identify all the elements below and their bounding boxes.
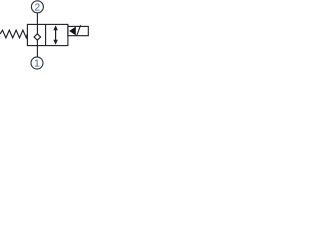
solenoid triangle xyxy=(69,27,76,36)
wire port2 to valve body xyxy=(36,13,38,25)
valve body outline (two position boxes) xyxy=(27,24,68,45)
solenoid diagonal slash xyxy=(77,25,81,35)
position divider line xyxy=(45,24,47,45)
svg-text:2: 2 xyxy=(34,2,40,13)
poppet stub wire upper xyxy=(36,24,38,34)
spring (zigzag) xyxy=(0,30,27,38)
poppet stub wire lower xyxy=(36,40,38,46)
port 2 circle xyxy=(31,1,43,13)
flow path arrow shaft xyxy=(55,28,57,42)
svg-text:1: 1 xyxy=(34,59,40,70)
flow arrow head down xyxy=(53,40,57,45)
poppet ball (diamond) xyxy=(34,34,41,40)
wire valve body to port 1 xyxy=(36,46,38,57)
flow arrow head up xyxy=(53,25,57,30)
port 1 circle xyxy=(31,57,43,69)
solenoid box xyxy=(68,26,88,35)
